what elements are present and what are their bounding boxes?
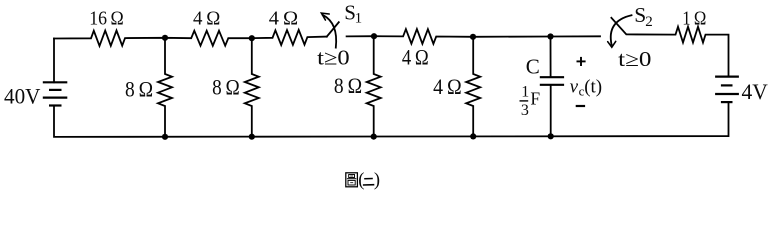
svg-text:1: 1	[521, 83, 529, 100]
svg-text:4 Ω: 4 Ω	[433, 74, 462, 99]
svg-text:(t): (t)	[584, 76, 602, 97]
svg-text:40V: 40V	[4, 83, 41, 108]
svg-text:4 Ω: 4 Ω	[269, 8, 298, 30]
svg-text:1: 1	[355, 11, 363, 27]
svg-text:t≥0: t≥0	[618, 47, 651, 71]
svg-text:F: F	[530, 88, 540, 108]
svg-text:v: v	[570, 76, 579, 97]
svg-text:4 Ω: 4 Ω	[402, 44, 429, 69]
svg-text:1 Ω: 1 Ω	[682, 8, 706, 30]
svg-text:): )	[374, 170, 380, 190]
svg-text:8 Ω: 8 Ω	[334, 73, 362, 98]
svg-text:4V: 4V	[742, 79, 768, 104]
svg-text:8 Ω: 8 Ω	[125, 76, 153, 101]
svg-text:t≥0: t≥0	[317, 45, 350, 69]
svg-text:8 Ω: 8 Ω	[212, 75, 240, 100]
svg-text:C: C	[526, 55, 540, 79]
svg-text:16 Ω: 16 Ω	[89, 8, 124, 30]
svg-text:3: 3	[521, 102, 529, 119]
svg-text:(: (	[358, 170, 364, 190]
svg-text:4 Ω: 4 Ω	[193, 8, 220, 30]
svg-text:2: 2	[645, 14, 653, 30]
